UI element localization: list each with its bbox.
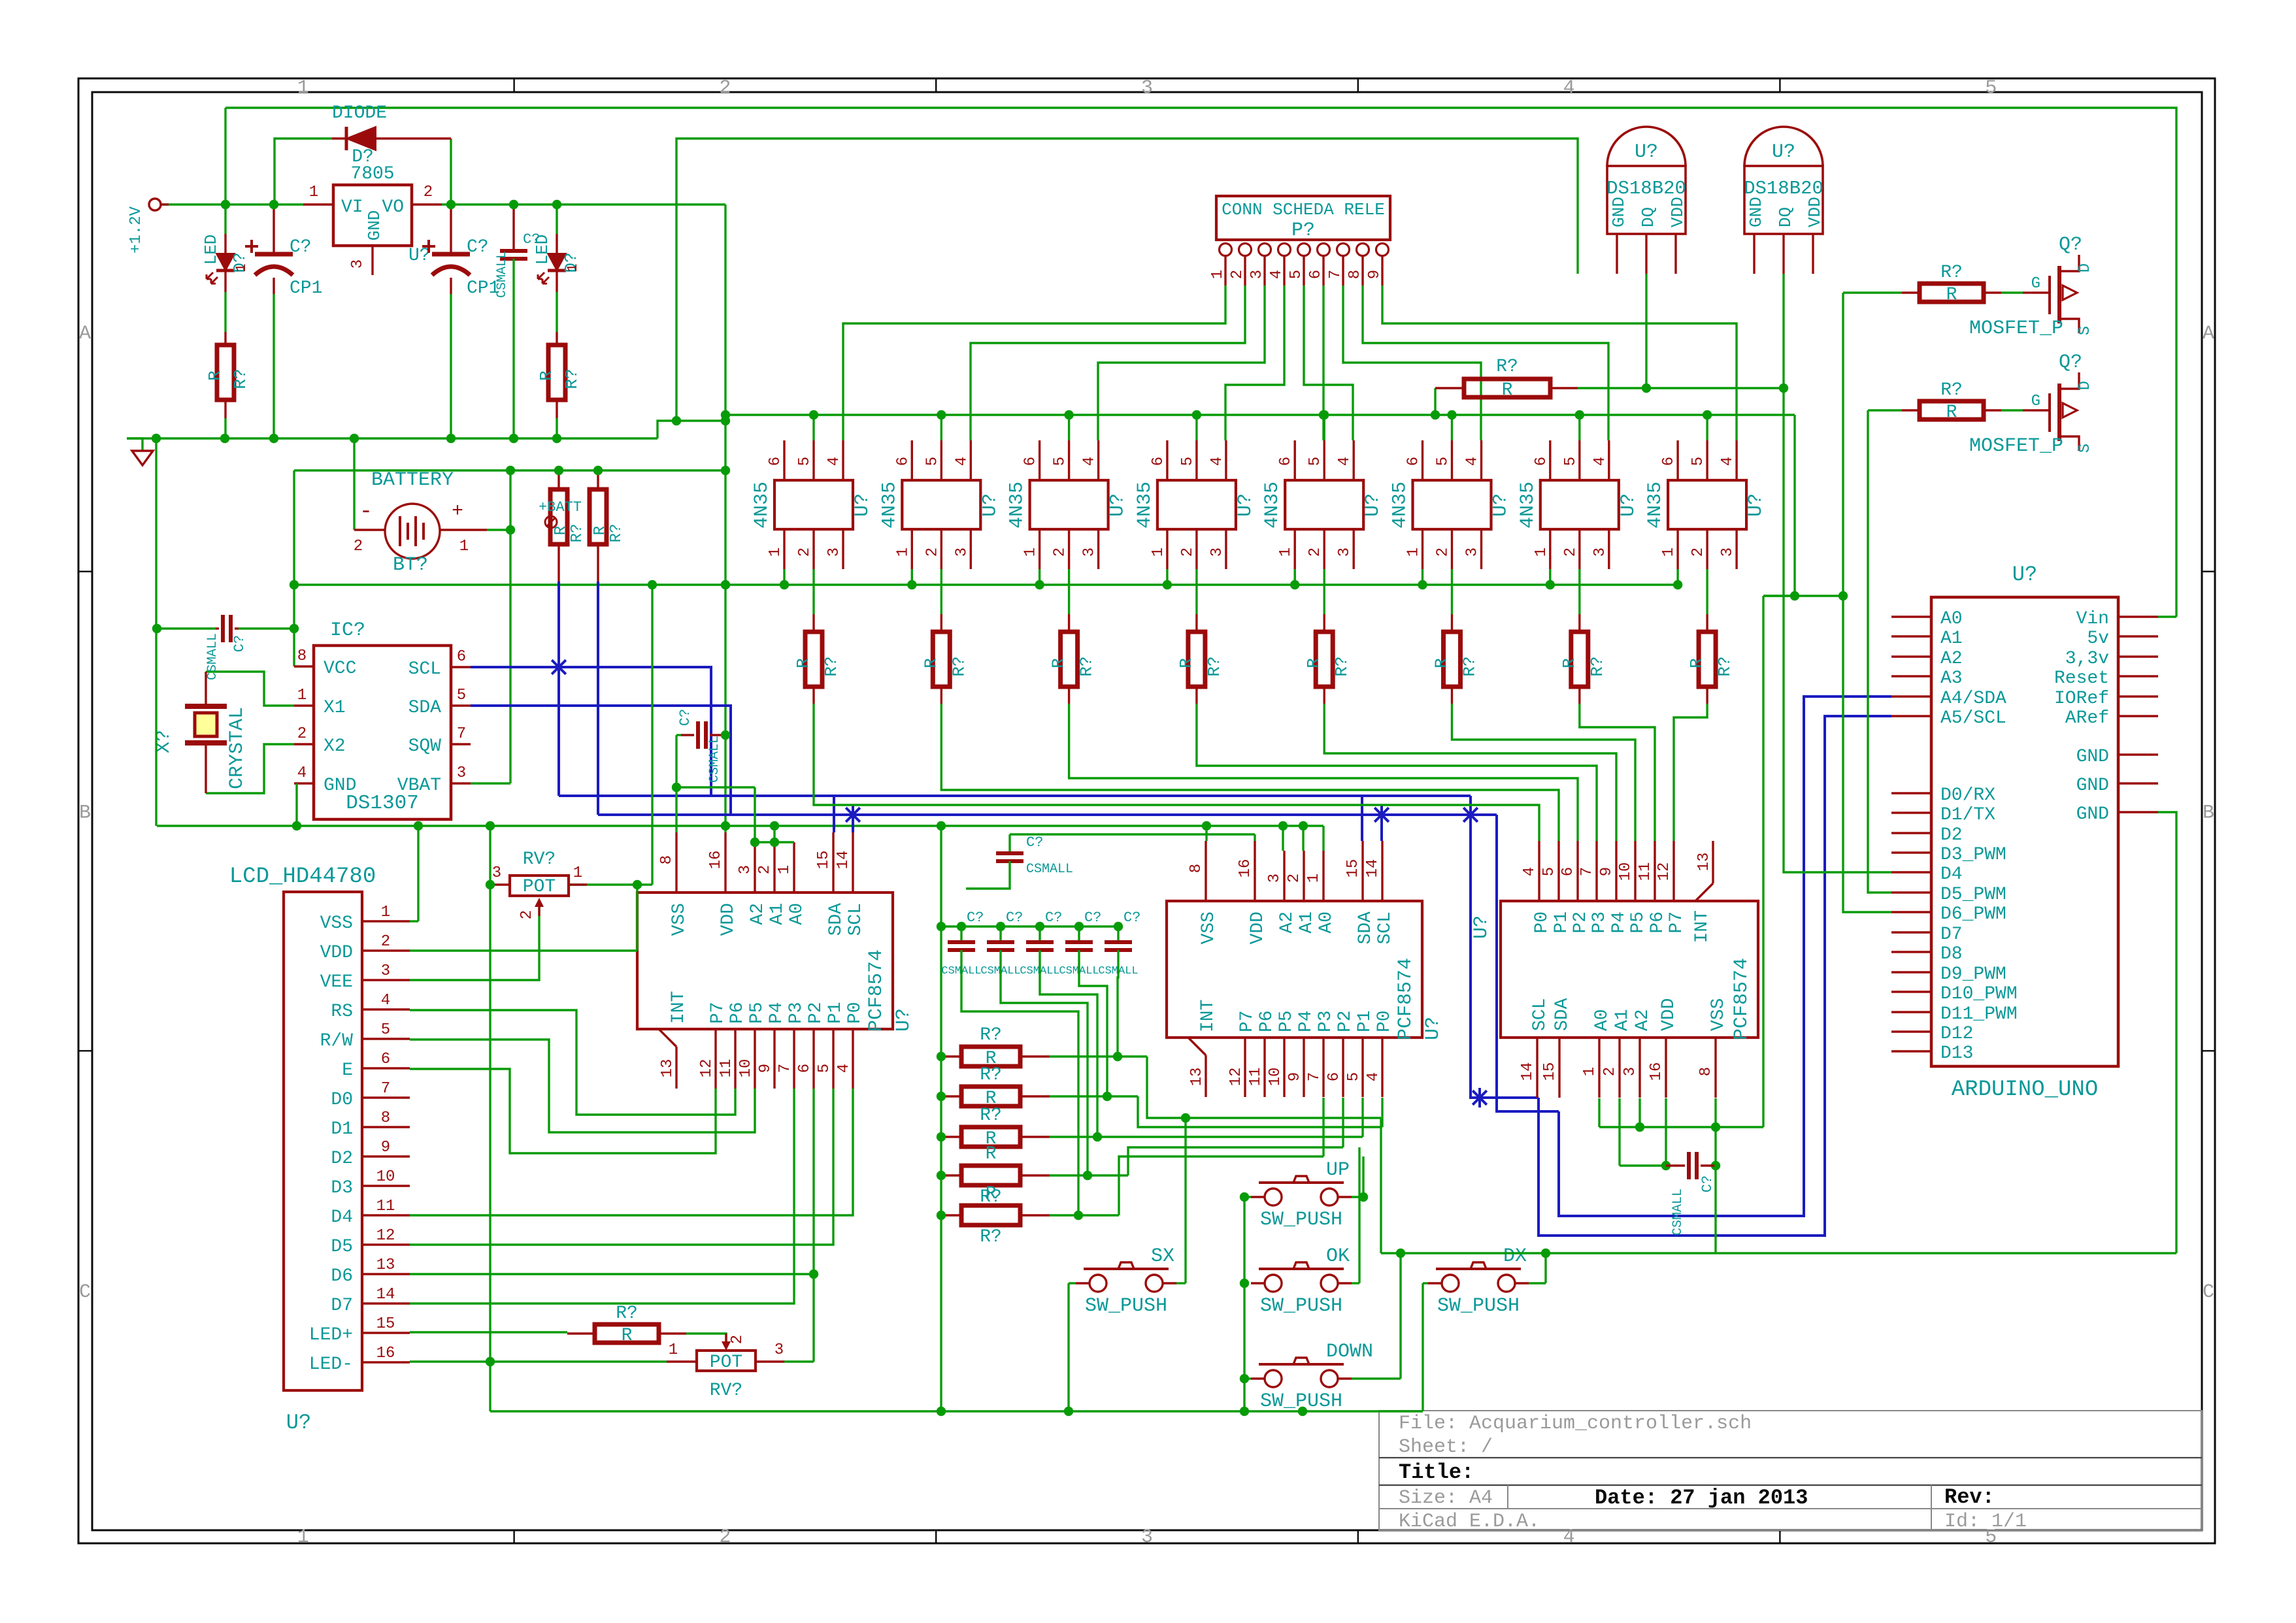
svg-text:SDA: SDA [826,903,846,936]
svg-text:Title:: Title: [1399,1460,1474,1484]
svg-text:C?: C? [467,237,489,257]
svg-text:6: 6 [1022,457,1040,466]
svg-text:BATTERY: BATTERY [371,469,454,491]
svg-text:13: 13 [659,1059,676,1078]
svg-text:7: 7 [381,1080,390,1098]
svg-text:5: 5 [381,1021,390,1039]
svg-text:Q?: Q? [2059,352,2082,374]
svg-text:VBAT: VBAT [397,776,441,796]
svg-text:P2: P2 [806,1002,826,1024]
svg-text:D3_PWM: D3_PWM [1940,845,2006,865]
svg-text:DQ: DQ [1776,207,1795,227]
svg-text:R?: R? [1077,656,1097,676]
svg-text:R: R [1559,658,1579,668]
svg-text:U?: U? [1471,915,1493,939]
svg-text:10: 10 [1617,862,1635,881]
svg-text:VDD: VDD [1659,998,1679,1031]
svg-text:MOSFET_P: MOSFET_P [1969,435,2063,457]
svg-text:4: 4 [381,992,390,1009]
svg-text:3: 3 [774,1341,784,1359]
svg-text:Date: 27 jan 2013: Date: 27 jan 2013 [1595,1486,1808,1510]
svg-text:16: 16 [376,1345,395,1362]
svg-text:OK: OK [1326,1245,1350,1268]
svg-text:6: 6 [1533,457,1550,466]
svg-text:2: 2 [796,548,814,557]
svg-text:4: 4 [1591,457,1609,466]
svg-text:A0: A0 [1316,911,1337,934]
svg-text:15: 15 [376,1315,395,1333]
svg-text:P3: P3 [1316,1010,1336,1032]
svg-text:C?: C? [1045,910,1062,926]
svg-text:UP: UP [1326,1159,1350,1181]
svg-text:4N35: 4N35 [1389,482,1412,529]
svg-text:1: 1 [894,548,912,557]
svg-text:13: 13 [1188,1068,1206,1087]
svg-text:P6: P6 [727,1002,748,1024]
svg-text:VDD: VDD [320,943,353,963]
svg-text:7: 7 [1306,1072,1323,1081]
svg-text:3: 3 [349,259,367,269]
svg-text:SX: SX [1151,1245,1174,1268]
svg-text:8: 8 [1697,1067,1715,1076]
svg-text:U?: U? [1235,493,1257,517]
svg-text:3: 3 [1141,77,1153,99]
svg-text:U?: U? [408,246,431,266]
svg-text:5: 5 [457,687,466,704]
svg-text:Size: A4: Size: A4 [1399,1487,1493,1509]
svg-text:Id: 1/1: Id: 1/1 [1944,1511,2027,1533]
svg-text:CSMALL: CSMALL [1671,1189,1686,1236]
svg-text:P?: P? [1291,220,1315,242]
svg-text:4: 4 [1365,1072,1382,1081]
svg-text:PCF8574: PCF8574 [865,949,888,1032]
svg-text:GND: GND [324,776,356,796]
svg-text:7: 7 [776,1064,794,1073]
svg-text:5: 5 [1306,457,1324,466]
svg-text:8: 8 [381,1109,390,1127]
svg-text:-: - [359,500,373,525]
svg-text:DIODE: DIODE [332,103,387,123]
svg-text:10: 10 [376,1168,395,1186]
svg-text:A0: A0 [787,903,807,925]
svg-text:+1.2V: +1.2V [127,206,145,254]
svg-text:1: 1 [297,77,309,99]
svg-text:VDD: VDD [1668,197,1688,227]
svg-text:D1/TX: D1/TX [1940,805,1995,825]
svg-text:13: 13 [376,1256,395,1274]
svg-text:2: 2 [719,77,731,99]
svg-text:1: 1 [573,864,582,882]
svg-text:4N35: 4N35 [878,482,901,529]
svg-text:D13: D13 [1940,1043,1973,1064]
svg-text:3: 3 [1464,548,1482,557]
svg-text:5: 5 [923,457,941,466]
svg-text:D10_PWM: D10_PWM [1940,984,2018,1004]
svg-text:1: 1 [767,548,784,557]
svg-text:3: 3 [1591,548,1609,557]
svg-text:10: 10 [737,1059,755,1078]
svg-text:5: 5 [816,1064,833,1073]
svg-text:11: 11 [376,1198,395,1215]
svg-text:4: 4 [1563,77,1575,99]
svg-text:CP1: CP1 [290,278,322,299]
svg-text:R?: R? [231,369,250,389]
svg-text:GND: GND [1609,197,1629,227]
svg-text:6: 6 [1307,270,1325,279]
svg-text:POT: POT [523,877,556,897]
svg-text:4N35: 4N35 [1517,482,1539,529]
svg-text:1: 1 [1022,548,1040,557]
svg-text:B: B [79,802,91,825]
svg-text:7: 7 [457,725,466,743]
svg-text:DQ: DQ [1639,207,1658,227]
svg-text:D?: D? [352,147,374,167]
svg-text:4: 4 [953,457,971,466]
svg-text:SQW: SQW [408,736,442,757]
svg-text:1: 1 [233,263,250,272]
svg-text:12: 12 [376,1227,395,1245]
svg-text:R?: R? [980,1227,1002,1247]
svg-text:15: 15 [1344,859,1362,878]
svg-text:A: A [2203,323,2214,345]
svg-text:6: 6 [1150,457,1167,466]
svg-text:C: C [79,1281,91,1303]
svg-text:A3: A3 [1940,668,1963,689]
svg-text:R: R [537,370,556,381]
svg-text:GND: GND [2076,747,2109,767]
svg-text:5: 5 [1985,77,1997,99]
svg-text:GND: GND [2076,776,2109,796]
svg-text:U?: U? [286,1411,311,1435]
svg-text:8: 8 [297,648,307,665]
svg-text:16: 16 [1648,1062,1665,1081]
svg-text:R?: R? [1940,263,1963,283]
svg-text:D5_PWM: D5_PWM [1940,885,2006,905]
svg-text:D: D [2076,381,2094,390]
svg-text:5: 5 [1288,270,1305,279]
svg-text:D7: D7 [1940,925,1963,945]
svg-text:P6: P6 [1257,1010,1277,1032]
svg-text:4N35: 4N35 [1261,482,1284,529]
svg-text:U?: U? [1422,1017,1444,1040]
svg-text:R: R [1687,658,1706,668]
svg-text:R: R [1946,402,1957,423]
svg-text:5: 5 [1435,457,1452,466]
svg-text:1: 1 [459,538,469,555]
svg-text:LED: LED [533,235,552,265]
svg-text:A1: A1 [1612,1009,1633,1031]
svg-text:X2: X2 [324,736,346,757]
svg-text:SCL: SCL [1375,911,1395,944]
svg-text:R?: R? [949,656,969,676]
svg-text:C?: C? [231,635,248,652]
svg-text:R: R [986,1184,997,1204]
svg-text:D2: D2 [331,1149,353,1169]
svg-text:D4: D4 [331,1207,353,1228]
svg-text:4: 4 [825,457,843,466]
svg-text:4: 4 [835,1064,853,1073]
svg-text:A5/SCL: A5/SCL [1940,708,2006,729]
svg-text:R?: R? [562,369,582,389]
svg-text:2: 2 [756,865,774,874]
svg-text:3: 3 [1719,548,1737,557]
svg-text:3: 3 [1336,548,1354,557]
svg-text:R?: R? [1588,656,1607,676]
svg-text:11: 11 [1637,862,1654,881]
svg-text:DX: DX [1503,1245,1527,1268]
svg-text:5: 5 [1689,457,1707,466]
svg-text:R?: R? [616,1303,638,1324]
svg-text:LED+: LED+ [309,1325,353,1345]
svg-text:R?: R? [1460,656,1480,676]
svg-text:5: 5 [1052,457,1069,466]
svg-text:8: 8 [1188,864,1205,873]
svg-text:VSS: VSS [1708,998,1729,1031]
svg-text:VSS: VSS [669,903,690,936]
svg-text:SW_PUSH: SW_PUSH [1437,1295,1520,1317]
svg-text:2: 2 [1435,548,1452,557]
svg-text:D: D [2076,263,2094,272]
svg-text:SDA: SDA [408,698,442,718]
svg-text:SCL: SCL [846,903,866,936]
svg-text:1: 1 [776,865,793,874]
svg-text:6: 6 [1325,1072,1343,1081]
svg-text:GND: GND [2076,804,2109,825]
svg-text:12: 12 [1655,862,1673,881]
svg-text:2: 2 [297,725,307,743]
svg-text:4N35: 4N35 [1007,482,1029,529]
svg-text:D6_PWM: D6_PWM [1940,904,2006,925]
svg-text:DS18B20: DS18B20 [1606,178,1686,199]
svg-text:P4: P4 [767,1002,787,1024]
svg-text:KiCad E.D.A.: KiCad E.D.A. [1399,1511,1540,1533]
svg-text:C?: C? [1123,910,1140,926]
svg-text:D5: D5 [331,1237,353,1257]
svg-text:SW_PUSH: SW_PUSH [1260,1209,1342,1231]
svg-text:SCL: SCL [408,659,441,680]
svg-text:A0: A0 [1940,609,1963,629]
svg-text:Vin: Vin [2076,609,2109,629]
svg-text:U?: U? [893,1008,915,1032]
svg-text:R?: R? [980,1065,1002,1085]
svg-text:VSS: VSS [1199,911,1219,944]
svg-text:5: 5 [796,457,814,466]
svg-text:D2: D2 [1940,825,1963,845]
svg-text:INT: INT [1692,910,1712,943]
svg-text:R: R [1304,658,1323,668]
svg-text:G: G [2031,393,2040,410]
svg-text:4N35: 4N35 [1134,482,1156,529]
svg-text:1: 1 [1660,548,1678,557]
svg-text:C?: C? [290,237,312,257]
svg-text:U?: U? [852,493,874,517]
svg-text:VDD: VDD [718,903,739,936]
svg-text:R?: R? [608,524,625,543]
svg-text:A0: A0 [1592,1009,1612,1031]
svg-text:U?: U? [1772,141,1795,163]
svg-text:3: 3 [1081,548,1099,557]
svg-text:P7: P7 [1237,1010,1257,1032]
svg-text:Q?: Q? [2059,234,2082,256]
svg-text:14: 14 [1519,1062,1537,1081]
svg-text:10: 10 [1267,1068,1284,1087]
svg-text:3: 3 [1208,548,1226,557]
svg-text:B: B [2203,802,2214,825]
svg-text:14: 14 [1364,859,1382,878]
svg-text:U?: U? [1745,493,1767,517]
svg-text:Reset: Reset [2054,668,2109,689]
svg-text:INT: INT [1198,1000,1218,1032]
svg-text:6: 6 [457,648,466,666]
svg-text:6: 6 [894,457,912,466]
svg-text:6: 6 [1660,457,1678,466]
svg-text:2: 2 [1306,548,1324,557]
svg-text:RS: RS [331,1002,353,1022]
svg-text:D0/RX: D0/RX [1940,785,1995,806]
svg-text:U?: U? [2012,563,2037,587]
svg-text:6: 6 [796,1064,814,1073]
svg-text:9: 9 [1366,270,1384,279]
svg-text:R: R [986,1144,997,1164]
svg-text:4: 4 [1081,457,1099,466]
svg-text:6: 6 [1559,867,1577,876]
svg-text:VDD: VDD [1805,197,1825,227]
svg-text:IORef: IORef [2054,689,2109,709]
svg-text:A1: A1 [1940,629,1963,649]
svg-text:2: 2 [1052,548,1069,557]
svg-text:1: 1 [381,904,390,921]
svg-text:D11_PWM: D11_PWM [1940,1004,2018,1025]
svg-text:P5: P5 [747,1002,767,1024]
svg-text:8: 8 [658,855,676,864]
svg-text:VDD: VDD [1248,911,1268,944]
svg-text:P2: P2 [1335,1010,1356,1032]
svg-text:1: 1 [297,1526,309,1549]
svg-text:LED-: LED- [309,1354,353,1375]
svg-text:A2: A2 [1633,1009,1653,1031]
svg-text:4: 4 [1719,457,1737,466]
svg-text:R: R [1946,285,1957,305]
svg-text:1: 1 [1150,548,1167,557]
svg-text:4: 4 [1336,457,1354,466]
svg-text:4N35: 4N35 [751,482,773,529]
svg-text:DS18B20: DS18B20 [1744,178,1823,199]
svg-text:P5: P5 [1628,911,1648,934]
svg-text:D1: D1 [331,1119,353,1139]
svg-text:1: 1 [1277,548,1295,557]
svg-text:3: 3 [381,962,390,980]
svg-text:P2: P2 [1571,911,1591,934]
svg-text:1: 1 [565,263,581,272]
svg-text:C?: C? [677,709,693,726]
svg-text:14: 14 [376,1286,395,1303]
svg-text:2: 2 [923,548,941,557]
svg-text:R?: R? [1715,656,1735,676]
svg-text:D0: D0 [331,1090,353,1110]
svg-text:D4: D4 [1940,864,1963,885]
svg-text:A: A [79,323,91,345]
svg-text:2: 2 [1689,548,1707,557]
svg-text:3: 3 [825,548,843,557]
svg-text:13: 13 [1695,853,1713,872]
svg-text:ARDUINO_UNO: ARDUINO_UNO [1952,1077,2098,1102]
svg-text:2: 2 [424,184,433,201]
svg-text:SCL: SCL [1530,998,1550,1031]
svg-text:2: 2 [1179,548,1197,557]
svg-text:7: 7 [1578,867,1596,876]
svg-text:R?: R? [822,656,841,676]
svg-text:RV?: RV? [710,1381,742,1401]
svg-text:4: 4 [1268,270,1286,279]
svg-text:Sheet: /: Sheet: / [1399,1436,1493,1458]
svg-text:SDA: SDA [1552,998,1572,1031]
svg-text:C: C [2203,1281,2214,1303]
svg-text:15: 15 [815,851,833,870]
svg-text:S: S [2076,444,2094,453]
svg-text:DOWN: DOWN [1326,1341,1373,1363]
svg-text:9: 9 [381,1139,390,1156]
svg-text:VCC: VCC [324,659,356,679]
svg-text:1: 1 [1533,548,1550,557]
svg-text:R?: R? [1332,656,1352,676]
svg-text:R?: R? [980,1025,1002,1045]
svg-text:IC?: IC? [330,619,365,642]
svg-text:S: S [2076,326,2094,335]
svg-text:PCF8574: PCF8574 [1731,958,1753,1040]
svg-text:U?: U? [1107,493,1129,517]
svg-text:R: R [921,658,940,668]
svg-text:INT: INT [669,991,689,1024]
svg-text:CSMALL: CSMALL [707,736,722,783]
svg-text:2: 2 [518,910,536,919]
svg-text:3: 3 [1141,1526,1153,1549]
svg-text:GND: GND [365,210,384,241]
svg-text:File: Acquarium_controller.sch: File: Acquarium_controller.sch [1399,1413,1752,1435]
svg-text:POT: POT [710,1352,742,1373]
svg-text:C?: C? [1699,1175,1716,1192]
svg-text:2: 2 [1562,548,1580,557]
svg-text:P3: P3 [786,1002,807,1024]
svg-text:2: 2 [729,1335,746,1344]
svg-text:R: R [1176,658,1196,668]
svg-text:3: 3 [737,865,754,874]
svg-text:P7: P7 [708,1002,728,1024]
svg-text:CONN SCHEDA RELE: CONN SCHEDA RELE [1222,200,1385,220]
svg-text:2: 2 [719,1526,731,1549]
svg-text:2: 2 [1286,874,1303,883]
svg-text:P1: P1 [1552,911,1572,934]
svg-text:C?: C? [1026,834,1043,851]
svg-text:R: R [552,526,570,535]
svg-text:SW_PUSH: SW_PUSH [1085,1295,1167,1317]
svg-text:8: 8 [1346,270,1364,279]
svg-text:C?: C? [1084,910,1101,926]
svg-text:BT?: BT? [393,554,428,576]
svg-text:5v: 5v [2087,629,2109,649]
svg-text:CSMALL: CSMALL [1026,862,1073,877]
svg-text:1: 1 [1405,548,1423,557]
svg-text:11: 11 [718,1059,735,1078]
svg-text:CSMALL: CSMALL [495,251,510,298]
svg-text:D8: D8 [1940,944,1963,964]
svg-text:R: R [622,1326,633,1346]
svg-text:R/W: R/W [320,1031,354,1051]
svg-text:VSS: VSS [320,913,353,934]
svg-text:6: 6 [1277,457,1295,466]
svg-text:E: E [342,1060,353,1081]
svg-text:16: 16 [707,851,725,870]
svg-text:ARef: ARef [2065,708,2109,729]
